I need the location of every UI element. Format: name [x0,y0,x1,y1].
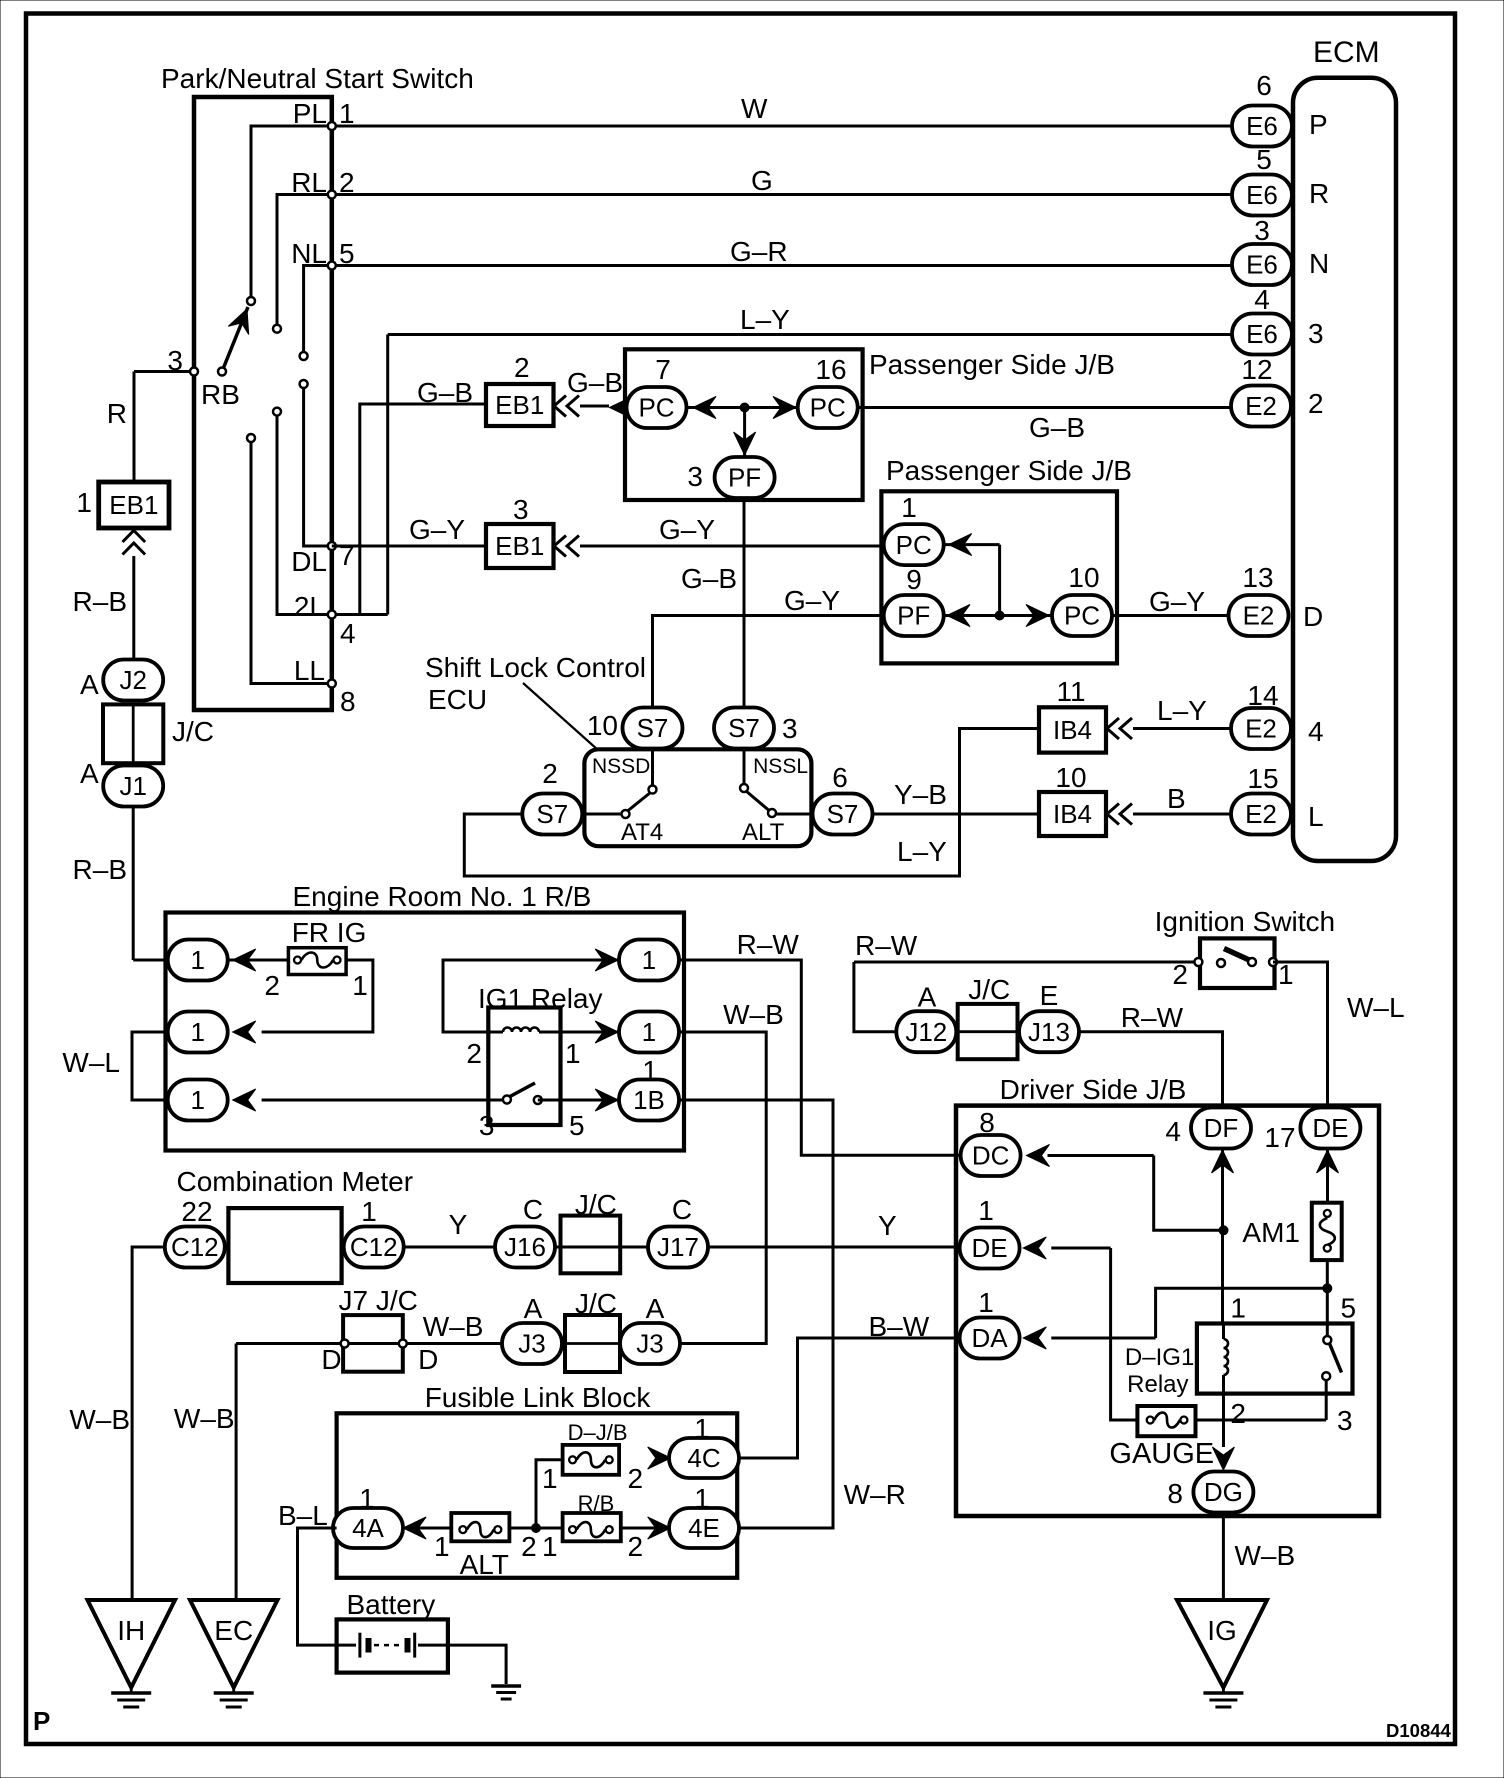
svg-text:9: 9 [906,564,922,595]
svg-text:J12: J12 [905,1017,947,1047]
svg-text:C: C [672,1194,692,1225]
svg-text:G–Y: G–Y [659,514,715,545]
svg-text:E2: E2 [1245,391,1277,421]
svg-text:1: 1 [565,1038,581,1069]
svg-text:3: 3 [479,1110,495,1141]
svg-text:10: 10 [587,710,618,741]
svg-text:2: 2 [339,167,355,198]
svg-text:C12: C12 [350,1232,398,1262]
svg-text:D10844: D10844 [1386,1720,1452,1741]
svg-text:NSSL: NSSL [753,755,808,778]
svg-text:W–B: W–B [423,1311,484,1342]
svg-text:DE: DE [972,1233,1008,1263]
svg-text:A: A [80,669,99,700]
svg-text:GAUGE: GAUGE [1109,1438,1214,1470]
svg-text:L: L [1308,801,1324,832]
svg-text:1: 1 [76,487,92,518]
svg-text:1: 1 [361,1196,377,1227]
svg-text:S7: S7 [536,799,568,829]
svg-text:L–Y: L–Y [1157,695,1207,726]
svg-text:2: 2 [1172,959,1188,990]
svg-text:10: 10 [1055,762,1086,793]
svg-text:Y: Y [449,1209,468,1240]
svg-text:P: P [1309,109,1328,140]
svg-text:G–B: G–B [1029,412,1085,443]
svg-text:11: 11 [1056,676,1085,707]
svg-text:1: 1 [1230,1293,1246,1324]
svg-text:3: 3 [1337,1405,1353,1436]
svg-text:Relay: Relay [1127,1371,1188,1398]
svg-text:7: 7 [655,354,671,385]
svg-text:PC: PC [1064,601,1100,631]
svg-text:E6: E6 [1246,180,1278,210]
svg-text:ALT: ALT [742,819,785,846]
svg-text:2: 2 [542,758,558,789]
svg-text:ECM: ECM [1313,36,1380,69]
svg-text:IB4: IB4 [1053,799,1092,829]
svg-text:G: G [751,165,773,196]
svg-text:4: 4 [1308,716,1324,747]
svg-text:4: 4 [1254,284,1270,315]
svg-text:S7: S7 [728,713,760,743]
svg-text:A: A [80,758,99,789]
svg-text:4A: 4A [352,1513,384,1543]
svg-text:Park/Neutral Start Switch: Park/Neutral Start Switch [161,63,474,94]
svg-text:RL: RL [291,167,327,198]
svg-text:D: D [321,1344,341,1375]
svg-text:NSSD: NSSD [592,755,650,778]
svg-text:E2: E2 [1245,714,1277,744]
svg-text:10: 10 [1068,562,1099,593]
svg-text:3: 3 [1254,215,1270,246]
svg-text:G–B: G–B [417,377,473,408]
svg-text:E2: E2 [1245,799,1277,829]
svg-text:2: 2 [514,352,530,383]
svg-text:PF: PF [897,601,930,631]
svg-text:S7: S7 [637,713,669,743]
svg-text:2: 2 [628,1531,644,1562]
svg-text:17: 17 [1264,1122,1295,1153]
svg-text:D–IG1: D–IG1 [1125,1344,1194,1371]
svg-text:3: 3 [782,713,798,744]
svg-text:FR IG: FR IG [292,917,367,948]
svg-text:Passenger Side J/B: Passenger Side J/B [886,455,1132,486]
svg-text:P: P [33,1706,50,1736]
svg-text:W–L: W–L [1347,992,1405,1023]
svg-text:1: 1 [434,1531,450,1562]
svg-text:ALT: ALT [460,1549,509,1580]
svg-text:J1: J1 [119,771,146,801]
svg-text:1: 1 [901,492,917,523]
svg-text:5: 5 [1256,144,1272,175]
svg-text:1: 1 [190,945,204,975]
svg-text:B–L: B–L [278,1500,328,1531]
svg-text:E6: E6 [1246,111,1278,141]
svg-text:E2: E2 [1243,601,1275,631]
svg-text:PF: PF [728,463,761,493]
svg-text:W–B: W–B [69,1404,130,1435]
svg-text:PC: PC [810,393,846,423]
svg-text:AT4: AT4 [621,819,663,846]
svg-text:D–J/B: D–J/B [568,1420,628,1445]
svg-text:EB1: EB1 [495,390,544,420]
svg-text:J17: J17 [657,1232,699,1262]
svg-text:J13: J13 [1028,1017,1070,1047]
svg-text:J/C: J/C [968,974,1010,1005]
svg-text:1: 1 [978,1287,994,1318]
svg-text:8: 8 [1167,1478,1183,1509]
svg-text:C12: C12 [171,1232,219,1262]
svg-text:G–Y: G–Y [409,514,465,545]
svg-text:3: 3 [1308,318,1324,349]
svg-text:S7: S7 [827,799,859,829]
svg-text:R–B: R–B [73,586,127,617]
svg-text:5: 5 [569,1110,585,1141]
svg-text:J3: J3 [518,1329,545,1359]
svg-text:W–R: W–R [844,1479,906,1510]
svg-text:J3: J3 [636,1329,663,1359]
svg-text:5: 5 [1341,1293,1357,1324]
svg-text:W: W [741,93,768,124]
svg-text:3: 3 [687,461,703,492]
svg-text:5: 5 [339,238,355,269]
svg-text:12: 12 [1241,354,1272,385]
svg-text:IG: IG [1207,1615,1237,1646]
svg-text:J16: J16 [504,1232,546,1262]
svg-text:Ignition Switch: Ignition Switch [1155,906,1336,937]
svg-text:1: 1 [642,945,656,975]
svg-text:14: 14 [1247,680,1278,711]
svg-text:DA: DA [972,1323,1009,1353]
svg-text:J/C: J/C [172,716,214,747]
svg-text:DE: DE [1312,1113,1348,1143]
svg-text:A: A [646,1293,665,1324]
svg-text:8: 8 [340,686,356,717]
svg-text:Fusible Link Block: Fusible Link Block [425,1382,652,1413]
svg-text:RB: RB [201,379,240,410]
svg-text:16: 16 [815,354,846,385]
svg-text:2: 2 [1230,1398,1246,1429]
svg-text:PC: PC [896,530,932,560]
svg-text:2L: 2L [294,591,325,622]
svg-text:R–B: R–B [73,854,127,885]
svg-text:R: R [107,398,127,429]
svg-text:DL: DL [291,546,327,577]
svg-text:22: 22 [181,1196,212,1227]
svg-text:2: 2 [628,1463,644,1494]
svg-text:Passenger Side J/B: Passenger Side J/B [869,349,1115,380]
svg-text:G–B: G–B [681,563,737,594]
svg-text:R: R [1309,178,1329,209]
svg-text:G–R: G–R [730,236,788,267]
svg-text:1B: 1B [633,1085,665,1115]
svg-text:15: 15 [1247,763,1278,794]
svg-text:PL: PL [293,98,327,129]
svg-text:DC: DC [972,1141,1010,1171]
svg-text:W–B: W–B [1235,1540,1296,1571]
svg-text:A: A [524,1293,543,1324]
svg-text:W–B: W–B [174,1403,235,1434]
svg-text:2: 2 [466,1038,482,1069]
svg-text:EB1: EB1 [495,531,544,561]
svg-text:1: 1 [1278,959,1294,990]
svg-text:6: 6 [832,762,848,793]
svg-text:EB1: EB1 [109,490,158,520]
svg-text:B: B [1167,783,1186,814]
svg-text:J/C: J/C [575,1288,617,1319]
svg-text:1: 1 [642,1017,656,1047]
svg-text:Engine Room No. 1 R/B: Engine Room No. 1 R/B [293,881,592,912]
svg-text:1: 1 [190,1085,204,1115]
svg-text:1: 1 [542,1463,558,1494]
svg-text:PC: PC [638,393,674,423]
svg-text:R–W: R–W [855,930,918,961]
svg-text:ECU: ECU [428,684,487,715]
svg-text:G–Y: G–Y [784,585,840,616]
svg-text:1: 1 [542,1531,558,1562]
svg-text:L–Y: L–Y [897,836,947,867]
svg-text:J7 J/C: J7 J/C [339,1285,418,1316]
svg-text:W–L: W–L [62,1047,120,1078]
svg-text:LL: LL [294,655,325,686]
svg-text:Driver Side J/B: Driver Side J/B [1000,1074,1187,1105]
svg-text:IH: IH [117,1615,145,1646]
svg-text:13: 13 [1242,562,1273,593]
svg-text:Y: Y [878,1210,897,1241]
svg-text:AM1: AM1 [1242,1217,1300,1248]
svg-text:4C: 4C [687,1443,720,1473]
svg-text:1: 1 [190,1017,204,1047]
svg-text:A: A [918,982,937,1013]
svg-text:D: D [1303,601,1323,632]
svg-text:1: 1 [978,1195,994,1226]
svg-text:1: 1 [339,98,355,129]
svg-text:E: E [1040,980,1059,1011]
svg-text:W–B: W–B [723,999,784,1030]
svg-text:L–Y: L–Y [740,304,790,335]
svg-text:G–B: G–B [567,367,623,398]
svg-text:C: C [523,1194,543,1225]
svg-text:2: 2 [1308,388,1324,419]
svg-text:4: 4 [340,618,356,649]
svg-text:R–W: R–W [1121,1002,1184,1033]
svg-text:2: 2 [521,1531,537,1562]
svg-text:3: 3 [513,494,529,525]
svg-text:Combination Meter: Combination Meter [177,1166,414,1197]
svg-text:J2: J2 [119,665,146,695]
svg-text:2: 2 [264,970,280,1001]
svg-text:NL: NL [291,238,327,269]
svg-text:6: 6 [1256,70,1272,101]
svg-text:1: 1 [352,970,368,1001]
svg-text:E6: E6 [1246,250,1278,280]
svg-text:Y–B: Y–B [894,779,947,810]
svg-text:IB4: IB4 [1053,715,1092,745]
svg-text:R–W: R–W [737,929,800,960]
svg-text:4E: 4E [688,1513,720,1543]
svg-text:G–Y: G–Y [1149,586,1205,617]
svg-text:Battery: Battery [347,1589,436,1620]
svg-text:E6: E6 [1246,319,1278,349]
svg-text:Shift Lock Control: Shift Lock Control [425,652,646,683]
svg-text:D: D [418,1344,438,1375]
svg-text:N: N [1309,248,1329,279]
svg-text:EC: EC [214,1615,253,1646]
svg-text:4: 4 [1165,1116,1181,1147]
svg-text:3: 3 [167,345,183,376]
svg-text:DG: DG [1204,1477,1243,1507]
svg-text:DF: DF [1204,1113,1239,1143]
